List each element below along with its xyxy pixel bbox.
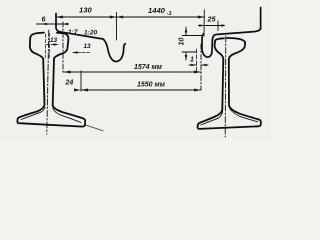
arrow 1574 right (194, 71, 201, 74)
right rail foot inner contour (201, 108, 258, 125)
arrow 25 left (199, 24, 204, 27)
left rail foot inner contour (21, 108, 81, 123)
svg-text:1440: 1440 (148, 6, 166, 15)
arrowheads (45, 16, 224, 92)
arrow 130 left (56, 16, 63, 19)
dim 13 no.1 arrow (47, 44, 58, 46)
svg-text:1550 мм: 1550 мм (137, 82, 166, 89)
svg-text:24: 24 (65, 80, 74, 87)
right wheel profile (flange, tread, chamfer, outer face) (202, 8, 261, 58)
arrow 24 right (74, 89, 81, 92)
arrow 25 right (218, 24, 223, 27)
dim 24 line and vertical (80, 71, 82, 91)
dimension texts (42, 6, 217, 89)
dim 1440-3 line (117, 16, 205, 18)
gauge dash line left (x=63) (62, 22, 64, 72)
svg-text:25: 25 (207, 15, 217, 24)
dim 130 right extension line (116, 13, 118, 41)
arrow 130 right / 1440 left pair (110, 16, 117, 19)
arrow 6 right (63, 23, 69, 26)
svg-text:1574 мм: 1574 мм (134, 64, 163, 71)
svg-text:130: 130 (79, 6, 92, 15)
dim 6 line (37, 23, 69, 25)
gauge dash line right (x=201) (200, 44, 202, 90)
arrow 1 right (201, 64, 207, 67)
dim 25 line (199, 25, 225, 27)
svg-text:1:20: 1:20 (84, 30, 98, 37)
dashed verticals in left head (45, 34, 49, 58)
dim 130 line (56, 16, 117, 18)
left rail centerline (47, 30, 49, 134)
arrow 13 no.2 (72, 51, 78, 54)
svg-text:10: 10 (179, 38, 186, 46)
dim 1 line (189, 64, 208, 66)
dim 10 vertical line (185, 27, 187, 60)
dashed vertical x=196.5 (flange clearance) (196, 49, 198, 72)
arrow 1440 right (198, 16, 205, 19)
dim 10 bottom reference line (182, 51, 197, 53)
arrow 10 top (185, 28, 188, 33)
left rail profile (head, web, foot) (17, 33, 85, 127)
svg-text:13: 13 (50, 37, 58, 44)
paper background (0, 0, 270, 139)
svg-text:13: 13 (84, 43, 92, 50)
left wheel profile (outer face, tread, flange) (56, 14, 125, 62)
dim 13 no.2 arrow (73, 52, 90, 54)
extension line at flange back (right) (203, 10, 205, 36)
dim 10 top reference line (182, 35, 203, 37)
left foot shadow line (85, 125, 103, 131)
arrow 1574 left (64, 71, 71, 74)
dim 1550 line (81, 89, 201, 91)
arrow 1 left (191, 64, 197, 67)
arrow 6 left (45, 23, 51, 26)
right rail profile (head, web, foot) (198, 38, 261, 129)
dim 1574 line (64, 71, 202, 73)
svg-text:-3: -3 (167, 11, 172, 17)
arrow 1550 left (81, 89, 88, 92)
right rail centerline (224, 36, 227, 137)
arrow 10 bottom (185, 55, 188, 60)
svg-text:1: 1 (190, 57, 194, 64)
arrow 13 no.1 (54, 43, 60, 46)
arrow 1550 right (194, 89, 201, 92)
svg-text:1:7: 1:7 (68, 29, 78, 36)
dim 25 right extension (217, 21, 219, 31)
